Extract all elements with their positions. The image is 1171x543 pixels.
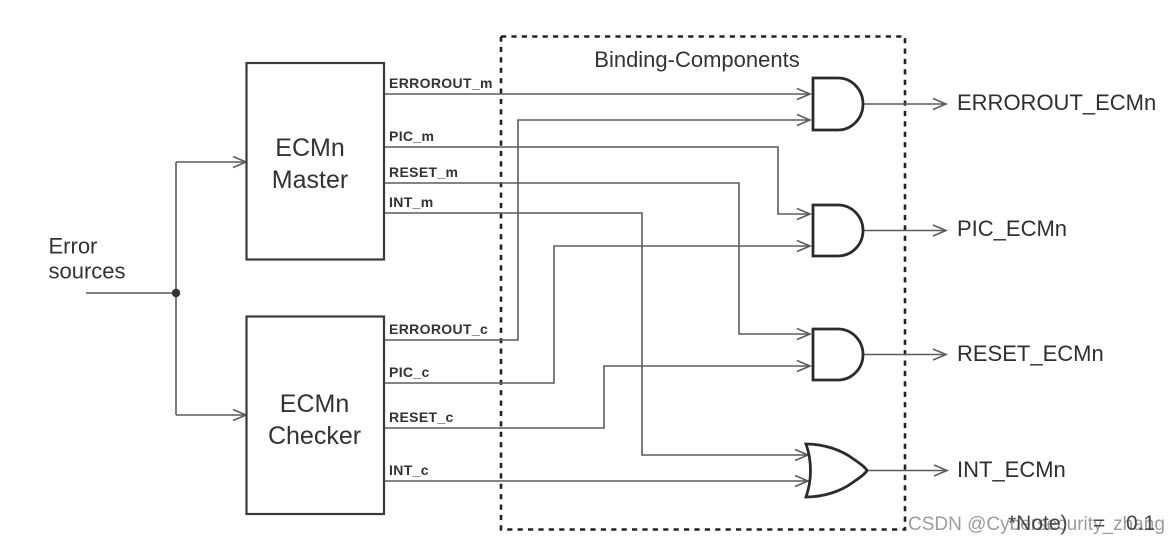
svg-text:ERROROUT_ECMn: ERROROUT_ECMn [957, 90, 1156, 115]
svg-text:Master: Master [272, 166, 348, 194]
svg-text:*Note): *Note) [1008, 512, 1068, 535]
svg-text:ECMn: ECMn [275, 134, 344, 162]
svg-text:ERROROUT_c: ERROROUT_c [389, 321, 488, 337]
svg-text:INT_ECMn: INT_ECMn [957, 457, 1066, 482]
svg-text:Error: Error [49, 234, 98, 259]
svg-text:RESET_ECMn: RESET_ECMn [957, 341, 1104, 366]
svg-text:Checker: Checker [268, 422, 361, 450]
svg-text:RESET_m: RESET_m [389, 164, 458, 180]
svg-text:Binding-Components: Binding-Components [594, 47, 799, 72]
svg-text:ECMn: ECMn [280, 390, 349, 418]
svg-text:PIC_c: PIC_c [389, 364, 430, 380]
svg-text:ERROROUT_m: ERROROUT_m [389, 75, 493, 91]
svg-text:PIC_ECMn: PIC_ECMn [957, 216, 1067, 241]
svg-text:INT_m: INT_m [389, 194, 434, 210]
svg-text:0.1: 0.1 [1126, 512, 1155, 535]
svg-text:INT_c: INT_c [389, 462, 429, 478]
svg-text:RESET_c: RESET_c [389, 409, 454, 425]
svg-text:=: = [1093, 512, 1105, 535]
svg-text:PIC_m: PIC_m [389, 128, 434, 144]
svg-text:sources: sources [49, 259, 126, 284]
